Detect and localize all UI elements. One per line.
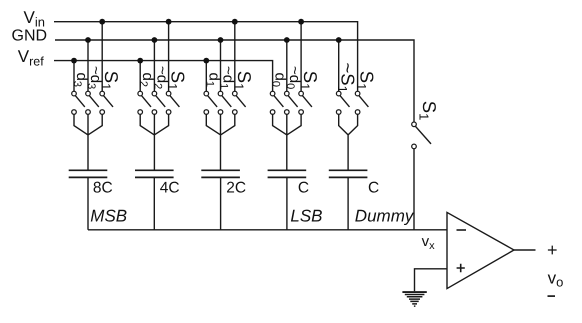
svg-text:Vref: Vref [18,47,44,69]
switch S1 (2C): open arm [236,96,245,107]
junction dot on GND rail at x=338.7 [336,37,342,43]
wire: switch outputs merge to top plate of MSB (8C) capacitor [74,114,102,170]
svg-text:4C: 4C [160,180,180,197]
wire: switch outputs merge to top plate of Dummy (C) capacitor [339,114,358,170]
switch S1 (MSB (8C)): open arm [104,96,113,107]
wire from Vin rail down to switch S1 (MSB (8C)) [101,22,103,92]
junction dot on Vin rail at x=234.8 [232,19,238,25]
switch ~d0 (LSB (C)): open arm [288,96,297,107]
switch S1 (sampling switch to vx): top terminal [412,122,417,127]
switch S1 (Dummy (C)): open arm [359,96,368,107]
wire vx bus: common bottom-plate rail to op-amp inverting input [88,229,447,231]
wire from Vref rail down to switch d2 (4C) [139,61,141,92]
wire: switch outputs merge to top plate of 2C capacitor [206,114,235,170]
switch S1 (MSB (8C)): bottom terminal [100,110,105,115]
svg-text:C: C [368,180,379,197]
svg-text:GND: GND [12,27,48,44]
switch ~d2 (4C): top terminal [152,91,157,96]
switch d1 (2C): open arm [208,96,217,107]
switch ~d3 (MSB (8C)): open arm [89,96,98,107]
svg-text:LSB: LSB [290,207,322,226]
switch d0 (LSB (C)): open arm [274,96,283,107]
switch S1 (Dummy (C)): top terminal [355,91,360,96]
wire from Vin rail down to switch S1 (4C) [168,22,170,92]
switch ~d1 (2C): open arm [222,96,231,107]
wire from Vin rail down to switch S1 (LSB (C)) [300,22,302,92]
junction dot on Vin rail at x=168.6 [166,19,172,25]
ground symbol [402,292,426,306]
junction dot on GND rail at x=88.0 [85,37,91,43]
junction dot on Vin rail at x=301.1 [298,19,304,25]
junction dot on GND rail at x=286.8 [284,37,290,43]
svg-text:+: + [547,240,558,260]
op-amp U1 (comparator) [447,212,514,288]
wire from GND rail down to switch ~d1 (2C) [220,40,222,91]
wire: bottom plate of capacitor 2C down to vx bus [220,177,222,229]
switch ~d0 (LSB (C)): top terminal [285,91,290,96]
switch ~S1 (Dummy (C)): bottom terminal [336,110,341,115]
svg-text:S1: S1 [231,71,255,91]
wire from GND rail down to switch ~d3 (MSB (8C)) [87,40,89,91]
svg-text:8C: 8C [93,180,113,197]
switch ~d1 (2C): top terminal [218,91,223,96]
switch S1 (LSB (C)): open arm [303,96,312,107]
wire: switch outputs merge to top plate of LSB (C) capacitor [273,114,302,170]
switch d0 (LSB (C)): top terminal [270,91,275,96]
svg-text:S1: S1 [298,71,322,91]
junction dot on Vin rail at x=102.2 [99,19,105,25]
wire: bottom plate of capacitor C (dummy) down to vx bus [347,177,349,229]
capacitor 2C [201,170,240,177]
svg-text:S1: S1 [354,71,378,91]
output - polarity label [548,295,556,297]
switch d2 (4C): top terminal [138,91,143,96]
wire: bottom plate of capacitor 8C (MSB) down to vx bus [87,177,89,229]
switch d1 (2C): bottom terminal [204,110,209,115]
switch d1 (2C): top terminal [204,91,209,96]
switch d3 (MSB (8C)): top terminal [72,91,77,96]
wire Vref rail (corners down into d0 switch) [54,61,273,92]
switch d2 (4C): bottom terminal [138,110,143,115]
wire from GND rail down to switch ~S1 (Dummy (C)) [338,40,340,91]
switch d2 (4C): open arm [142,96,151,107]
switch S1 (sampling switch): open arm [416,126,432,143]
wire from Vref rail down to switch d3 (MSB (8C)) [73,61,75,92]
switch ~d0 (LSB (C)): bottom terminal [285,110,290,115]
capacitor 8C (MSB) [69,170,108,177]
capacitor C (dummy) [329,170,368,177]
svg-text:vx: vx [422,233,436,252]
switch S1 (Dummy (C)): bottom terminal [355,110,360,115]
switch S1 (MSB (8C)): top terminal [100,91,105,96]
capacitor C (LSB) [268,170,307,177]
wire: bottom plate of capacitor 4C down to vx bus [153,177,155,229]
wire from Vref rail down to switch d1 (2C) [205,61,207,92]
svg-text:Dummy: Dummy [355,207,415,226]
switch S1 (2C): bottom terminal [233,110,238,115]
switch ~S1 (Dummy (C)): open arm [340,96,349,107]
svg-text:MSB: MSB [90,207,127,226]
wire: op-amp non-inverting input to ground [415,269,448,292]
op-amp U1 inverting input (-) mark [457,229,467,231]
switch ~d3 (MSB (8C)): top terminal [86,91,91,96]
wire from GND rail down to switch ~d0 (LSB (C)) [286,40,288,91]
svg-text:S1: S1 [417,101,441,121]
switch ~d1 (2C): bottom terminal [218,110,223,115]
capacitor 4C [135,170,174,177]
svg-text:vo: vo [548,269,564,290]
switch S1 (sampling switch): bottom terminal [412,144,417,149]
wire: op-amp output [514,249,536,251]
wire: bottom plate of capacitor C (LSB) down to vx bus [286,177,288,229]
wire: switch outputs merge to top plate of 4C capacitor [140,114,168,170]
switch S1 (4C): top terminal [166,91,171,96]
svg-text:C: C [298,180,309,197]
wire: sampling switch S1 down to vx node [413,149,415,230]
wire GND rail (corners down into sampling switch S1) [55,40,414,122]
switch ~d2 (4C): bottom terminal [152,110,157,115]
switch d3 (MSB (8C)): open arm [75,96,84,107]
svg-text:S1: S1 [99,71,123,91]
switch S1 (LSB (C)): bottom terminal [299,110,304,115]
switch S1 (4C): open arm [170,96,179,107]
svg-text:Vin: Vin [24,8,45,30]
switch ~d3 (MSB (8C)): bottom terminal [86,110,91,115]
svg-text:2C: 2C [226,180,246,197]
switch d3 (MSB (8C)): bottom terminal [72,110,77,115]
junction dot on Vref rail at x=206.3 [203,58,209,64]
switch S1 (4C): bottom terminal [166,110,171,115]
switch S1 (2C): top terminal [233,91,238,96]
junction dot on Vref rail at x=74.0 [71,58,77,64]
junction dot on GND rail at x=154.4 [152,37,158,43]
svg-text:S1: S1 [165,71,189,91]
wire Vin rail (corners down into dummy S1 switch) [54,22,358,92]
junction dot on GND rail at x=220.5 [218,37,224,43]
switch ~d2 (4C): open arm [156,96,165,107]
switch ~S1 (Dummy (C)): top terminal [336,91,341,96]
op-amp U1 non-inverting input (+) mark [457,264,465,272]
wire from Vin rail down to switch S1 (2C) [234,22,236,92]
switch S1 (LSB (C)): top terminal [299,91,304,96]
wire from GND rail down to switch ~d2 (4C) [153,40,155,91]
switch d0 (LSB (C)): bottom terminal [270,110,275,115]
junction dot on Vref rail at x=140.2 [137,58,143,64]
